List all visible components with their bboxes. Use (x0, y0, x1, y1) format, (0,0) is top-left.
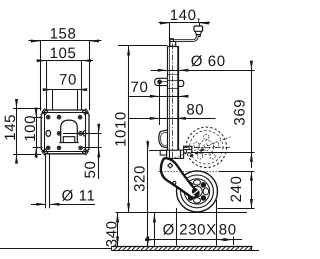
crank hub cap (170, 39, 174, 42)
dim 240 lines (159, 171, 255, 208)
svg-text:320: 320 (131, 165, 148, 192)
leader arrow at wheel bottom (153, 213, 156, 246)
dashed wheel axle line (184, 147, 231, 149)
ground hatching (114, 246, 253, 250)
svg-text:80: 80 (219, 221, 237, 238)
svg-text:1010: 1010 (112, 111, 129, 147)
Ø230 right / 80 left extension (216, 200, 218, 246)
hole mid-right (79, 132, 83, 136)
dim 369 line (192, 61, 255, 168)
clamp left ear (155, 78, 168, 85)
crown side nut (184, 146, 192, 153)
dashed wheel bolt circles (194, 134, 219, 159)
dim Ø230x80 bottom line (145, 238, 242, 241)
saddle base line (59, 142, 78, 144)
plate right inner line (85, 113, 87, 152)
dim 320 ext (149, 150, 167, 152)
crank knob taper (195, 31, 201, 34)
plate left inner line (44, 113, 46, 152)
slot mid-left (46, 130, 51, 136)
dim 70 right: bolt extension line (159, 82, 161, 125)
solid wheel rim (184, 179, 209, 204)
svg-text:158: 158 (50, 26, 77, 43)
svg-text:369: 369 (231, 99, 248, 126)
solid wheel tire inner (181, 175, 214, 208)
clamp band bottom (167, 88, 179, 90)
plate top lip (44, 112, 87, 114)
80 right tick (233, 237, 235, 246)
Ø11 leader and arrows (31, 203, 95, 206)
svg-text:105: 105 (50, 45, 77, 62)
svg-text:Ø 60: Ø 60 (191, 53, 226, 70)
tube outer walls (167, 46, 179, 150)
svg-text:70: 70 (59, 72, 77, 89)
plate outline (41, 110, 89, 154)
dim 80 right line (129, 117, 216, 120)
hole bottom-right (79, 146, 83, 150)
corner tab bottom-left (42, 149, 48, 155)
crank hub (170, 42, 176, 47)
ground hatched bar (112, 246, 252, 251)
hole top-left (46, 115, 50, 119)
hole bottom-mid (57, 146, 61, 150)
dashed wheel inner (190, 131, 223, 164)
ground baseline left (0, 248, 112, 250)
dashed fork arm (190, 149, 205, 157)
dim Ø60 arrows (158, 69, 189, 72)
svg-text:Ø 11: Ø 11 (62, 187, 96, 204)
hole mid-center (57, 132, 61, 136)
handle rest flag (159, 130, 168, 148)
wheel rim windows (185, 180, 208, 203)
dim 50 ext bottom (83, 147, 102, 149)
fork leg (161, 158, 198, 197)
svg-text:240: 240 (228, 176, 245, 203)
tube inner wall lines (177, 46, 179, 150)
dim 340 line (116, 213, 119, 246)
svg-text:80: 80 (186, 102, 204, 119)
fork crown (167, 150, 184, 158)
Ø230 left extension (176, 208, 178, 246)
svg-text:140,: 140, (170, 7, 202, 24)
dim 320 line (146, 141, 149, 247)
fork axle boss (190, 187, 201, 198)
crank knob neck (196, 35, 200, 37)
svg-text:230X: 230X (179, 221, 216, 238)
dim 70 right line (129, 95, 189, 98)
dim Ø230x80 text (163, 221, 237, 238)
handle rest flag inner (161, 132, 168, 145)
tube centerline (172, 44, 174, 163)
dim 1010 line (118, 46, 167, 213)
slot mid-right (83, 131, 85, 136)
corner tab bottom-right (83, 149, 89, 155)
hole top-mid (57, 115, 61, 119)
dim 50 line (97, 124, 100, 179)
dashed wheel hub (199, 140, 213, 154)
hole bottom-left (46, 146, 50, 150)
svg-text:100: 100 (22, 115, 39, 142)
ground baseline right (252, 250, 259, 252)
svg-text:340: 340 (103, 220, 120, 247)
crank knob (194, 26, 203, 31)
Ø11 extension lines (46, 154, 50, 209)
swivel axis dashed diagonal (172, 137, 232, 159)
dim 145 line (13, 99, 41, 164)
clamp right ear stub (179, 80, 184, 86)
tube weld line (167, 74, 179, 76)
hole top-right (78, 115, 82, 119)
fork crown clip (160, 150, 166, 155)
wheel bolts (188, 182, 206, 201)
wheel hub ring (192, 186, 203, 197)
svg-text:Ø: Ø (163, 221, 175, 238)
dim 50 ext top (through saddle) (63, 133, 102, 135)
dim 70 line (43, 88, 87, 110)
svg-text:145: 145 (2, 114, 19, 141)
svg-text:70: 70 (131, 79, 149, 96)
dim 100 line (33, 108, 43, 159)
fork leg hole (168, 163, 173, 168)
svg-text:50: 50 (82, 161, 99, 179)
solid wheel tire outer (177, 171, 218, 212)
saddle tab (63, 137, 75, 143)
clamp saddle outline (61, 120, 78, 143)
dim 105 line (37, 59, 94, 110)
dashed wheel outer (186, 127, 226, 167)
crank arm (170, 36, 197, 41)
corner tab top-left (42, 109, 48, 115)
corner tab top-right (83, 109, 89, 115)
dim 140 line (159, 22, 211, 46)
clamp band top (167, 80, 179, 82)
dim Ø60 / 369 top extension line (151, 70, 255, 72)
dim 158 line (29, 40, 102, 111)
plate bottom inner line (44, 151, 86, 153)
fork leg rivet (173, 181, 176, 184)
wheel bottom reference line (116, 212, 248, 214)
